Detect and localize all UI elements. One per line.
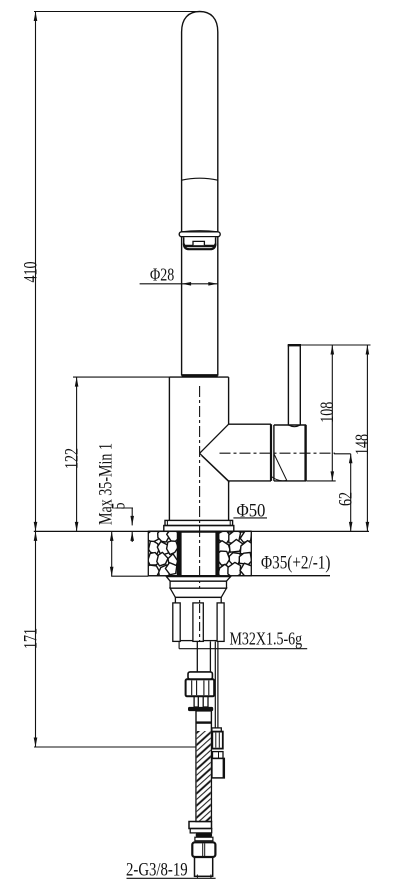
body right edge lower [228,481,230,521]
extension line body top [73,376,169,378]
svg-text:Φ35(+2/-1): Φ35(+2/-1) [261,552,330,573]
hose braid hatch [197,731,211,821]
svg-text:122: 122 [61,448,83,469]
countertop left block with stone hatch [146,529,179,579]
svg-text:M32X1.5-6g: M32X1.5-6g [230,630,303,649]
elbow top edge [229,423,271,425]
hose end ring [190,829,212,833]
side fitting body [212,758,224,778]
aerator cup bottom (thick) [184,244,216,250]
svg-text:171: 171 [20,628,42,649]
extension line top (spout apex) [34,11,199,13]
cylinder weld seam diagonal [274,455,287,481]
elbow right end [270,424,272,481]
supply pipe below nut [196,641,198,672]
nut rib left [173,603,180,642]
dimension line 108 [331,345,333,481]
extension line 171 bottom [34,746,196,748]
extension line 62 top [334,453,351,455]
dimension line 62 [350,454,352,532]
extension line counter bottom left [111,575,148,577]
dimension line 148 [366,345,368,531]
dimension line 410/171 [35,12,37,748]
body right edge upper [228,377,230,424]
dimension line Phi28 [140,283,218,285]
svg-text:108: 108 [316,402,338,423]
svg-text:410: 410 [20,261,42,282]
hose end collar [189,822,212,829]
connector stem posts [194,696,198,707]
spray head seam [182,178,218,180]
elbow lower diagonal (double) [200,453,229,481]
cylinder saddle arc [271,476,287,480]
svg-text:Φ28: Φ28 [150,266,174,285]
spout tube with domed top [182,12,218,376]
hose ferrule band [196,721,211,723]
threaded shank right wall (solid) [215,531,218,575]
aerator tab [193,241,204,245]
svg-text:Max 35-Min 1: Max 35-Min 1 [95,443,117,525]
mounting nut body [175,597,221,640]
centerline horizontal [220,452,336,454]
dimension line 5 [131,508,133,525]
body left edge [168,377,170,520]
centerline vertical [199,386,201,642]
handle base cylinder [274,425,306,481]
countertop right block with stone hatch [216,530,253,579]
braided hose outline [196,711,211,822]
quick-connector collar [188,672,212,679]
extension line handle top [288,344,370,346]
side supply tube [214,641,216,728]
handle lever [288,345,301,427]
spout-body joint (thick) [182,374,218,377]
dimension line 122 [76,377,78,531]
dimension line Max35-Min1 [111,531,113,576]
washer plate [166,577,230,582]
body top shoulder [169,376,228,378]
spacer band [170,581,226,588]
dimension 5 shelf [116,507,134,509]
quick-connector hex nut [186,679,215,696]
aerator face line [184,245,215,247]
aerator cup [184,237,216,249]
svg-text:5: 5 [107,502,129,509]
countertop surface line [34,530,369,532]
extension line handle base bottom [307,480,336,482]
svg-text:62: 62 [334,492,356,506]
threaded shank left wall (solid) [177,531,181,575]
hose end thin band [195,837,213,841]
side fitting spacer [213,752,224,759]
svg-text:2-G3/8-19: 2-G3/8-19 [126,859,188,880]
end hex nut [192,842,215,857]
connector clamp band (solid) [188,707,213,711]
svg-text:148: 148 [351,434,373,455]
elbow upper diagonal [200,424,229,453]
end pipe stub [195,857,213,876]
hex facet lines [192,681,209,696]
nut rib middle [193,603,203,642]
cone section [170,588,226,597]
side fitting collar [212,728,221,732]
base flange lower plate [164,526,234,532]
hose end black band [196,833,212,837]
flange corner ticks [166,520,168,525]
base flange upper plate [165,520,233,525]
side fitting nut [212,732,223,749]
nut rib right [217,603,224,642]
counter bottom line [148,575,330,577]
spray head bezel ring [179,232,220,237]
centerline through nut [199,604,201,641]
elbow bottom edge [229,480,271,482]
